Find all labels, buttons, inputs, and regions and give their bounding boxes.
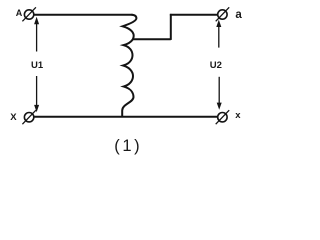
svg-text:U2: U2 [210, 60, 222, 71]
svg-text:x: x [235, 110, 241, 121]
wire top-right (riser to a) [170, 14, 218, 16]
svg-text:X: X [10, 112, 17, 123]
svg-text:a: a [235, 9, 242, 21]
wire top-left (A to winding) [34, 14, 133, 16]
arrow U2 down [217, 77, 222, 110]
arrow U1 up [34, 17, 39, 52]
riser wire [170, 14, 172, 40]
terminal a [216, 7, 230, 21]
svg-text:(1): (1) [114, 137, 142, 155]
arrow U1 down [34, 76, 39, 112]
arrow U2 up [216, 20, 221, 48]
wire bottom (X to x, winding return) [34, 116, 218, 118]
svg-text:A: A [16, 8, 23, 18]
terminal A [22, 7, 36, 21]
winding L1 (autotransformer coil) [122, 15, 136, 116]
tap wire (winding tap to riser) [133, 38, 171, 40]
terminal x [216, 110, 230, 124]
svg-text:U1: U1 [31, 60, 44, 71]
terminal X [22, 110, 36, 124]
